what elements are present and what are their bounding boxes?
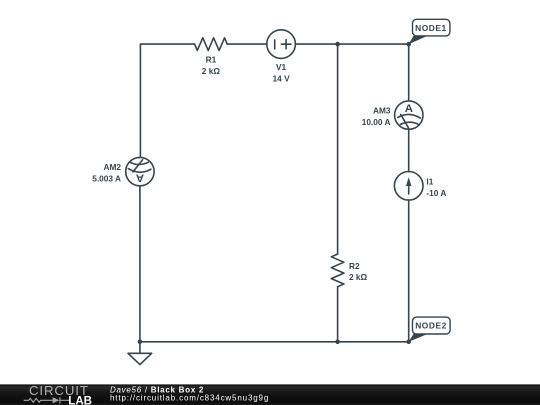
svg-text:-10 A: -10 A [426,188,446,198]
wire bottom horizontal [140,341,409,343]
wire left-vertical upper + top horizontal (corner to R1) [140,44,194,157]
svg-text:NODE1: NODE1 [415,23,447,33]
wire middle vertical (junction to R2) [337,44,339,254]
svg-text:NODE2: NODE2 [415,321,447,331]
wire R2 to bottom [337,287,339,342]
wire AM2 to bottom-left corner [139,186,141,342]
node NODE1 [409,19,450,44]
wire AM3 to I1 [408,129,410,171]
svg-text:10.00 A: 10.00 A [362,117,391,127]
svg-text:A: A [405,103,413,115]
ammeter AM2 [126,157,154,185]
node NODE2 [409,317,450,342]
svg-text:V1: V1 [276,62,287,72]
ground [128,342,152,365]
wire R1 to V1 [227,43,267,45]
ammeter AM3 [395,101,423,129]
junction dot top (middle branch) [335,42,340,47]
svg-text:R2: R2 [349,261,360,271]
wire I1 to NODE2 anchor [408,200,410,342]
label AM3 value [362,106,391,127]
svg-text:14 V: 14 V [273,73,291,83]
junction dot NODE2 anchor [406,340,411,345]
svg-text:LAB: LAB [68,395,92,405]
footer logo squiggle [24,397,70,404]
svg-text:http://circuitlab.com/c834cw5n: http://circuitlab.com/c834cw5nu3g9g [110,393,269,402]
wire NODE1 to AM3 [408,44,410,101]
label R1 value [202,55,221,76]
wire V1 to NODE1 anchor [295,43,408,45]
footer bar [0,384,540,405]
junction dot bottom (middle branch) [335,340,340,345]
svg-text:AM2: AM2 [103,162,121,172]
resistor R1 [195,38,228,51]
svg-text:5.003 A: 5.003 A [92,173,121,183]
svg-text:2 kΩ: 2 kΩ [349,272,368,282]
label V1 value [273,62,291,83]
svg-text:I1: I1 [426,177,433,187]
junction dot NODE1 anchor [406,42,411,47]
voltage source V1 [267,30,296,59]
label AM2 value [92,162,121,183]
junction dot bottom-left (ground) [138,340,143,345]
svg-text:2 kΩ: 2 kΩ [202,66,221,76]
svg-text:R1: R1 [206,55,217,65]
svg-text:A: A [136,172,144,184]
label R2 value [349,261,368,282]
resistor R2 [331,254,344,287]
label I1 value [426,177,446,198]
svg-text:AM3: AM3 [373,106,391,116]
current source I1 [394,172,423,201]
